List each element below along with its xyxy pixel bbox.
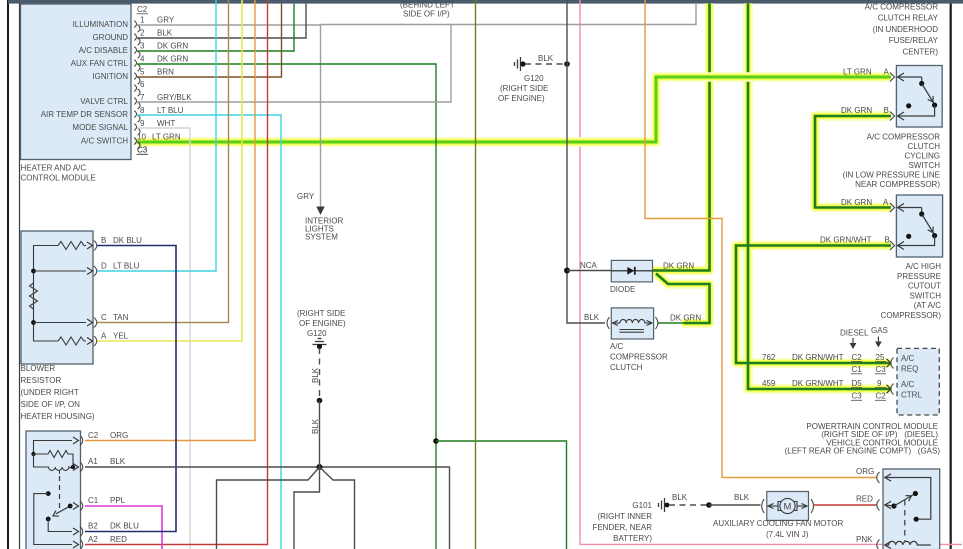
svg-text:(IN UNDERHOOD: (IN UNDERHOOD	[873, 25, 939, 34]
wire DK GRN/WHT cutout switch B to A/C REQ	[736, 246, 891, 364]
wire NCA to diode	[567, 270, 611, 272]
fan relay blade	[894, 494, 915, 507]
svg-text:BATTERY): BATTERY)	[613, 534, 652, 543]
wire BLK dashed from G101	[669, 504, 709, 506]
cycling switch contact dot	[932, 103, 937, 108]
wire PPL from relay pin C1	[85, 506, 162, 549]
wire TAN from top to blower resistor pin C	[97, 0, 229, 323]
fan relay ORG internal path	[885, 478, 931, 520]
wire A1 BLK to splice	[85, 467, 450, 549]
svg-text:A/C COMPRESSOR: A/C COMPRESSOR	[867, 133, 941, 142]
svg-text:DK GRN: DK GRN	[157, 55, 188, 64]
cutout switch contact dot	[932, 233, 937, 238]
relay wire C2 internal	[34, 441, 73, 455]
fan relay ORG contact dot	[914, 517, 919, 522]
svg-text:A/C: A/C	[901, 380, 915, 389]
svg-text:CUTOUT: CUTOUT	[908, 282, 941, 291]
blower resistor pin arrows	[87, 242, 93, 345]
svg-text:A1: A1	[88, 457, 98, 466]
wire pin5 BRN	[137, 4, 282, 77]
cutout switch free contact dot	[906, 234, 911, 239]
PCM pin A/C REQ bracket	[891, 358, 894, 369]
splice branch right	[320, 467, 355, 549]
svg-text:CONTROL MODULE: CONTROL MODULE	[21, 174, 96, 183]
relay junction dot right	[71, 465, 75, 469]
fan relay pin PNK bracket	[877, 540, 880, 549]
svg-text:(AT A/C: (AT A/C	[914, 301, 941, 310]
svg-text:A/C HIGH: A/C HIGH	[905, 262, 941, 271]
clutch right bracket	[655, 317, 658, 329]
splice branch left	[217, 467, 320, 549]
svg-text:4: 4	[140, 55, 145, 64]
svg-text:AUXILIARY COOLING FAN MOTOR: AUXILIARY COOLING FAN MOTOR	[713, 519, 843, 528]
fan relay coil PNK	[885, 541, 891, 548]
wire pin1 GRY to interior lights	[137, 25, 321, 207]
svg-text:3: 3	[140, 42, 145, 51]
svg-text:A: A	[883, 198, 889, 207]
wire BLK solid to splice	[319, 401, 321, 468]
clutch left bracket	[607, 317, 610, 329]
svg-text:9: 9	[877, 379, 882, 388]
diode box	[611, 260, 652, 282]
blower resistor pin labels	[101, 236, 142, 341]
wire LT BLU from top to blower resistor pin D	[97, 0, 216, 271]
svg-text:SYSTEM: SYSTEM	[305, 233, 338, 242]
svg-text:(RIGHT SIDE: (RIGHT SIDE	[297, 309, 345, 318]
svg-text:LT GRN: LT GRN	[152, 133, 181, 142]
label A/C CTRL	[901, 380, 922, 400]
cutout switch pivot	[921, 208, 923, 215]
wire RED motor to relay	[814, 504, 878, 506]
ground symbol G120 top	[515, 57, 521, 71]
wire BLK dashed G120 top	[525, 63, 567, 65]
svg-text:MODE SIGNAL: MODE SIGNAL	[72, 123, 128, 132]
svg-text:ORG: ORG	[856, 467, 874, 476]
wire pin8 LT BLU	[137, 115, 281, 549]
svg-text:CLUTCH: CLUTCH	[610, 363, 643, 372]
svg-text:COMPRESSOR: COMPRESSOR	[610, 353, 668, 362]
svg-text:DK GRN: DK GRN	[157, 42, 188, 51]
svg-text:A/C COMPRESSOR: A/C COMPRESSOR	[865, 3, 939, 12]
svg-text:REQ: REQ	[901, 365, 918, 374]
A/C high pressure cutout switch box	[896, 195, 942, 257]
fan relay pin RED bracket	[877, 500, 880, 511]
label 459 DK GRN/WHT D5 9	[762, 379, 882, 388]
blower resistor junction dot D	[31, 269, 36, 274]
svg-text:A2: A2	[88, 535, 98, 544]
fan relay pivot dot	[891, 503, 896, 508]
svg-text:HEATER HOUSING): HEATER HOUSING)	[21, 412, 95, 421]
highlight glow LT GRN path	[137, 77, 891, 142]
label powertrain control module	[785, 422, 941, 456]
label A/C compressor clutch cycling switch	[843, 133, 941, 190]
svg-text:25: 25	[876, 353, 885, 362]
svg-text:FENDER, NEAR: FENDER, NEAR	[592, 523, 652, 532]
relay wire B2 internal	[48, 519, 72, 532]
wire DK GRN branch to bottom	[436, 441, 567, 549]
wire pin3 DK GRN	[137, 4, 294, 51]
label C1 C3 underlined	[852, 365, 887, 374]
ground symbol G120 mid	[313, 339, 327, 345]
PCM pin A/C CTRL bracket	[891, 384, 894, 395]
svg-text:10: 10	[137, 133, 146, 142]
svg-text:BLK: BLK	[584, 313, 600, 322]
blower resistor pin brackets	[94, 241, 97, 347]
svg-text:A: A	[101, 332, 107, 341]
svg-text:NEAR COMPRESSOR): NEAR COMPRESSOR)	[855, 180, 940, 189]
svg-text:YEL: YEL	[113, 332, 129, 341]
cycling switch pin A bracket	[890, 73, 895, 82]
label: heater and A/C control module	[21, 164, 96, 183]
blower resistor zigzag top (to pin B)	[58, 242, 86, 250]
wire pin7 GRY/BLK	[137, 4, 696, 102]
module pin name labels	[41, 20, 129, 146]
svg-text:A/C DISABLE: A/C DISABLE	[79, 46, 128, 55]
wire YEL from top to blower resistor pin A	[97, 0, 242, 341]
svg-text:A/C SWITCH: A/C SWITCH	[81, 137, 128, 146]
svg-text:LT GRN: LT GRN	[843, 68, 872, 77]
wire pin2 BLK	[137, 4, 306, 38]
svg-text:GROUND: GROUND	[92, 33, 128, 42]
svg-text:SWITCH: SWITCH	[908, 161, 940, 170]
wire DK GRN relay feed 1 (to diode junction)	[653, 3, 710, 270]
label A/C compressor clutch	[610, 342, 668, 372]
fan relay blade upper dot	[913, 491, 918, 496]
blower resistor zigzag bottom (to pin A)	[58, 337, 86, 345]
svg-text:CYCLING: CYCLING	[904, 152, 940, 161]
label 762 DK GRN/WHT C2 25	[762, 353, 885, 362]
svg-text:SWITCH: SWITCH	[909, 291, 941, 300]
label blower resistor	[21, 364, 95, 421]
ground G120 top label	[498, 74, 548, 103]
wire DK BLU blower resistor pin B to relay pin B2	[85, 246, 176, 532]
motor right bracket	[811, 499, 814, 513]
svg-text:9: 9	[140, 119, 145, 128]
svg-text:A: A	[884, 68, 890, 77]
svg-text:DK GRN/WHT: DK GRN/WHT	[792, 379, 844, 388]
cutout switch pin B bracket	[890, 241, 895, 250]
relay coil	[34, 454, 74, 470]
svg-text:C2: C2	[876, 392, 887, 401]
svg-text:(UNDER RIGHT: (UNDER RIGHT	[21, 388, 79, 397]
wire pin9 WHT	[137, 128, 190, 549]
A/C compressor clutch box	[611, 308, 653, 339]
wire DK GRN clutch pigtail	[658, 322, 686, 324]
relay switch blade	[56, 506, 70, 514]
svg-text:SIDE OF I/P, ON: SIDE OF I/P, ON	[21, 400, 81, 409]
A/C compressor clutch cycling switch box	[896, 66, 942, 128]
blower resistor junction dot C	[31, 320, 36, 325]
label A/C high pressure cutout switch	[881, 262, 942, 320]
svg-text:PPL: PPL	[110, 496, 126, 505]
cutout switch pin A arrow	[898, 207, 922, 209]
wire DK GRN relay feed 2 to A/C CTRL	[748, 3, 891, 389]
svg-text:C: C	[101, 313, 107, 322]
arrow to interior lights system	[316, 207, 324, 216]
svg-text:6: 6	[140, 80, 145, 89]
svg-text:NCA: NCA	[580, 261, 598, 270]
svg-text:5: 5	[140, 68, 145, 77]
wire ORG to aux fan relay	[645, 0, 877, 478]
label A/C REQ	[901, 354, 918, 374]
svg-text:DIODE: DIODE	[610, 285, 635, 294]
svg-text:OF ENGINE): OF ENGINE)	[299, 319, 346, 328]
fan relay RED internal	[885, 504, 894, 507]
wire BRN olive vertical pass-through	[475, 0, 477, 549]
svg-text:BLK: BLK	[672, 493, 688, 502]
svg-text:SIDE OF I/P): SIDE OF I/P)	[403, 10, 450, 19]
svg-text:C3: C3	[137, 146, 148, 155]
junction dot motor BLK	[706, 502, 712, 508]
splice branch center	[294, 467, 320, 549]
wire BLK dashed from G120 mid	[319, 348, 321, 401]
wire LT GRN pin10 to cycling switch A	[137, 77, 891, 142]
junction dot BLK	[317, 398, 323, 404]
svg-text:G120: G120	[307, 329, 327, 338]
svg-text:PRESSURE: PRESSURE	[897, 272, 941, 281]
svg-text:WHT: WHT	[157, 119, 175, 128]
cycling switch pin A arrow	[898, 76, 922, 78]
motor circle M	[780, 498, 795, 513]
svg-text:2: 2	[140, 29, 145, 38]
svg-text:7: 7	[140, 93, 145, 102]
diode symbol	[611, 270, 627, 272]
svg-text:B: B	[101, 236, 106, 245]
clutch internal arrows	[613, 322, 620, 324]
grouping box (pink)	[580, 0, 962, 544]
splice junction dot	[317, 464, 323, 470]
blower resistor wire to pin D	[34, 270, 87, 272]
svg-text:DK GRN/WHT: DK GRN/WHT	[820, 236, 872, 245]
cycling switch pin B arrow	[898, 105, 935, 116]
svg-text:BRN: BRN	[157, 68, 174, 77]
svg-text:FUSE/RELAY: FUSE/RELAY	[889, 36, 939, 45]
junction dot G120 top	[564, 61, 570, 67]
powertrain control module dashed box	[897, 348, 939, 415]
svg-text:LT BLU: LT BLU	[157, 106, 184, 115]
svg-text:DK GRN: DK GRN	[841, 106, 872, 115]
cycling switch free contact dot	[906, 103, 911, 108]
svg-text:LT BLU: LT BLU	[113, 262, 140, 271]
wire RED from top to relay pin A2	[85, 0, 268, 545]
relay junction dot left	[31, 452, 35, 456]
svg-text:RED: RED	[856, 495, 873, 504]
svg-text:D: D	[101, 262, 107, 271]
label: behind left side of I/P	[400, 1, 455, 19]
svg-text:B: B	[885, 236, 890, 245]
aux fan motor box	[767, 492, 809, 521]
label auxiliary cooling fan motor	[713, 519, 843, 539]
svg-text:G101: G101	[632, 501, 652, 510]
svg-text:C2: C2	[852, 353, 863, 362]
svg-text:(7.4L VIN J): (7.4L VIN J)	[766, 530, 809, 539]
ground G120 mid label	[297, 309, 346, 338]
svg-text:(RIGHT SIDE: (RIGHT SIDE	[500, 84, 548, 93]
clutch core lines	[620, 329, 645, 331]
svg-text:(BEHIND LEFT: (BEHIND LEFT	[400, 1, 455, 10]
ground symbol G101	[659, 498, 665, 512]
motor frame brackets	[778, 502, 782, 511]
svg-text:1: 1	[140, 16, 145, 25]
svg-text:(LEFT REAR OF ENGINE COMPT): (LEFT REAR OF ENGINE COMPT) (GAS)	[785, 447, 941, 456]
blower resistor internal rail	[34, 246, 59, 342]
svg-text:BLK: BLK	[311, 367, 320, 383]
svg-text:BLK: BLK	[110, 457, 126, 466]
svg-text:(IN LOW PRESSURE LINE: (IN LOW PRESSURE LINE	[843, 171, 940, 180]
svg-text:B2: B2	[88, 522, 98, 531]
blower resistor box	[21, 231, 93, 364]
svg-text:C3: C3	[852, 392, 863, 401]
heater and A/C control module box	[21, 4, 132, 160]
svg-text:RED: RED	[110, 535, 127, 544]
motor internal arrows	[769, 505, 779, 507]
fan relay armature dashed	[904, 500, 906, 541]
svg-text:DIESEL: DIESEL	[840, 329, 869, 338]
svg-text:C3: C3	[876, 365, 887, 374]
wire DK GRN cycling switch B to cutout switch A	[815, 116, 891, 208]
svg-text:C2: C2	[137, 5, 148, 14]
svg-text:DK GRN: DK GRN	[841, 198, 872, 207]
auxiliary fan relay box	[883, 469, 940, 549]
svg-text:VALVE CTRL: VALVE CTRL	[80, 97, 128, 106]
svg-text:CLUTCH RELAY: CLUTCH RELAY	[878, 14, 939, 23]
svg-text:ILLUMINATION: ILLUMINATION	[73, 20, 129, 29]
svg-text:AUX FAN CTRL: AUX FAN CTRL	[71, 59, 129, 68]
relay resistor zigzag	[34, 451, 74, 468]
svg-text:TAN: TAN	[113, 313, 129, 322]
svg-text:B: B	[884, 106, 889, 115]
svg-text:CENTER): CENTER)	[902, 47, 938, 56]
svg-text:RESISTOR: RESISTOR	[21, 376, 62, 385]
svg-text:BLOWER: BLOWER	[21, 364, 56, 373]
cutout switch pin B arrow	[898, 236, 935, 246]
svg-text:DK GRN/WHT: DK GRN/WHT	[792, 353, 844, 362]
blower resistor wire to pin C	[34, 322, 87, 324]
cutout switch blade	[922, 214, 935, 235]
svg-text:BLK: BLK	[157, 29, 173, 38]
wire ORG from top to relay pin C2	[85, 0, 255, 441]
relay switch contact upper dot	[46, 491, 51, 496]
svg-text:BLK: BLK	[538, 54, 554, 63]
cycling switch pin B bracket	[890, 112, 895, 121]
relay wire C1 internal	[70, 505, 72, 507]
relay switch pivot dot	[68, 504, 73, 509]
label C3 C2 underlined	[852, 392, 887, 401]
relay pin arrows	[73, 437, 79, 548]
blower relay box	[26, 431, 81, 549]
svg-text:COMPRESSOR): COMPRESSOR)	[881, 311, 942, 320]
svg-text:HEATER AND A/C: HEATER AND A/C	[21, 164, 87, 173]
junction dot pin4 branch	[433, 438, 439, 444]
module pin10 bracket redrawn over highlight	[134, 138, 140, 150]
module pin brackets	[134, 21, 140, 150]
svg-text:8: 8	[140, 106, 145, 115]
svg-text:ORG: ORG	[110, 431, 128, 440]
wire BLK vertical to diode and clutch	[567, 0, 605, 323]
highlight glow DK GRN paths	[653, 3, 892, 389]
svg-text:CLUTCH: CLUTCH	[908, 142, 941, 151]
svg-text:762: 762	[762, 353, 776, 362]
svg-text:A/C: A/C	[610, 342, 624, 351]
relay armature dashed link	[59, 470, 61, 474]
svg-text:IGNITION: IGNITION	[92, 72, 128, 81]
svg-text:GAS: GAS	[871, 326, 888, 335]
wire pin4 DK GRN long	[137, 64, 436, 549]
cutout switch pin A bracket	[890, 203, 895, 212]
junction dot NCA	[564, 268, 570, 274]
svg-text:DK GRN: DK GRN	[663, 262, 694, 271]
relay switch lower dot	[46, 517, 51, 522]
svg-text:D5: D5	[852, 379, 863, 388]
label A/C compressor clutch relay	[865, 3, 939, 57]
clutch coil	[620, 319, 645, 323]
svg-text:C2: C2	[88, 431, 99, 440]
fan relay pin ORG bracket	[877, 472, 880, 483]
wire DK GRN diode bypass to clutch	[656, 274, 710, 324]
motor left bracket	[762, 499, 765, 513]
page border right	[950, 0, 952, 549]
relay wire A1 internal	[72, 466, 73, 468]
svg-text:CTRL: CTRL	[901, 391, 922, 400]
blower resistor vertical zigzag	[30, 283, 38, 309]
relay switch blade arrowhead	[53, 511, 59, 517]
wire GRY link segment	[321, 24, 452, 26]
svg-text:G120: G120	[524, 74, 544, 83]
svg-text:GRY: GRY	[157, 16, 175, 25]
svg-text:DK BLU: DK BLU	[110, 522, 139, 531]
cycling switch blade	[922, 84, 935, 105]
svg-text:DK GRN: DK GRN	[670, 314, 701, 323]
svg-text:M: M	[784, 502, 792, 513]
page border left inner	[19, 0, 21, 549]
relay pin brackets	[80, 436, 83, 549]
svg-text:459: 459	[762, 379, 776, 388]
ground G101 label	[592, 501, 652, 543]
cycling switch pivot	[921, 77, 923, 84]
svg-text:C1: C1	[88, 496, 99, 505]
svg-text:GRY: GRY	[297, 192, 315, 201]
module pin wire number/color labels	[140, 16, 192, 129]
label interior lights system	[305, 217, 343, 242]
page border left outer	[7, 0, 9, 549]
svg-text:DK BLU: DK BLU	[113, 236, 142, 245]
svg-text:AIR TEMP DR SENSOR: AIR TEMP DR SENSOR	[41, 110, 129, 119]
svg-text:GRY/BLK: GRY/BLK	[157, 93, 192, 102]
svg-text:C1: C1	[852, 365, 863, 374]
wire BLK to motor	[709, 504, 761, 506]
svg-text:A/C: A/C	[901, 354, 915, 363]
relay pin labels	[88, 431, 139, 544]
svg-text:BLK: BLK	[734, 493, 750, 502]
svg-text:BLK: BLK	[311, 418, 320, 434]
relay wire A2 internal	[34, 494, 72, 545]
page top header bar	[8, 0, 963, 4]
svg-text:(RIGHT INNER: (RIGHT INNER	[597, 512, 652, 521]
svg-text:OF ENGINE): OF ENGINE)	[498, 94, 545, 103]
svg-text:PNK: PNK	[856, 535, 873, 544]
